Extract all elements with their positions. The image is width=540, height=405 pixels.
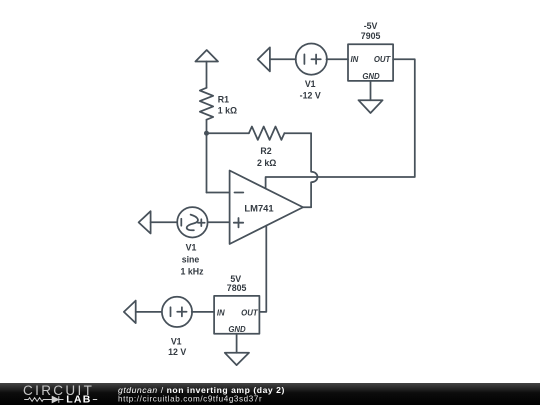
wire 7905 GND down [370, 81, 372, 100]
ground (below 7905) [359, 100, 383, 113]
svg-text:V1: V1 [186, 243, 197, 253]
wire V+ power net: 7805 OUT right, up to op-amp bottom pin stub [259, 226, 266, 312]
wire sine source to op-amp non-inverting input [208, 221, 230, 223]
svg-text:7805: 7805 [227, 283, 247, 293]
svg-text:gtduncan / non inverting amp (: gtduncan / non inverting amp (day 2) [118, 385, 285, 395]
svg-text:2 kΩ: 2 kΩ [257, 158, 276, 168]
op-amp plus sign [234, 218, 243, 227]
resistor R1 [200, 88, 213, 120]
wire R1 bottom to node A [206, 120, 208, 134]
wire R1 top [206, 62, 208, 88]
ground (below 7805) [225, 353, 249, 365]
net flag left (middle, sine source) [139, 211, 151, 233]
wire to op-amp inverting input [207, 192, 230, 194]
sine source minus bar [180, 219, 182, 226]
wire 7805 GND down [236, 334, 238, 353]
net flag left (bottom, 12V source) [124, 301, 136, 324]
sine source squiggle [187, 215, 198, 231]
CircuitLab logo wire-resistor-diode glyph [24, 396, 97, 403]
wire flag to V1 -12V source [270, 58, 296, 60]
svg-text:R1: R1 [218, 94, 229, 104]
net flag up (R1 top) [195, 50, 218, 62]
footer black bar [0, 383, 540, 405]
net flag left (top, -12V source) [258, 47, 270, 71]
svg-text:-12 V: -12 V [300, 91, 321, 101]
V1 -12V plus sign [311, 55, 320, 64]
V1 12V minus bar [170, 307, 172, 316]
op-amp U1 LM741 body [230, 171, 303, 245]
svg-text:R2: R2 [260, 146, 271, 156]
sine source plus sign [198, 219, 205, 226]
svg-text:IN: IN [217, 309, 225, 318]
wire node A to R2 [207, 132, 249, 134]
svg-text:IN: IN [351, 55, 359, 64]
svg-text:12 V: 12 V [168, 347, 186, 357]
svg-text:-5V: -5V [364, 21, 378, 31]
V1 -12V minus bar [303, 54, 305, 64]
svg-text:OUT: OUT [241, 309, 259, 318]
svg-text:sine: sine [182, 254, 200, 264]
wire R2 right [284, 132, 311, 134]
wire feedback vertical with hop over power wire [311, 133, 317, 207]
wire flag to V1 12V source [136, 311, 162, 313]
svg-text:V1: V1 [171, 337, 182, 347]
resistor R2 [249, 127, 285, 140]
svg-text:GND: GND [228, 325, 246, 334]
svg-text:http://circuitlab.com/c9tfu4g3: http://circuitlab.com/c9tfu4g3sd37r [118, 395, 262, 404]
wire op-amp output [303, 206, 311, 208]
node A junction dot [204, 131, 209, 136]
voltage source V1 sine circle [177, 207, 207, 237]
op-amp minus sign [235, 192, 244, 194]
voltage source V1 -12V circle [296, 44, 327, 75]
wire V1 -12V to 7905 IN [326, 58, 348, 60]
regulator U2 7905 box [348, 44, 393, 81]
svg-text:V1: V1 [305, 79, 316, 89]
wire V- power net: 7905 OUT right, down, left to op-amp top pin stub [266, 59, 415, 188]
wire flag to sine source [151, 221, 178, 223]
svg-text:1 kHz: 1 kHz [181, 266, 205, 276]
wire node A down [206, 133, 208, 192]
wire V1 12V to 7805 IN [192, 311, 214, 313]
svg-text:7905: 7905 [361, 31, 381, 41]
voltage source V1 12V circle [162, 297, 192, 327]
svg-text:1 kΩ: 1 kΩ [218, 106, 237, 116]
svg-text:OUT: OUT [374, 55, 392, 64]
regulator U3 7805 box [214, 296, 259, 334]
svg-text:LM741: LM741 [244, 203, 273, 214]
svg-text:GND: GND [362, 72, 380, 81]
V1 12V plus sign [177, 307, 186, 316]
svg-text:LAB: LAB [66, 393, 91, 405]
